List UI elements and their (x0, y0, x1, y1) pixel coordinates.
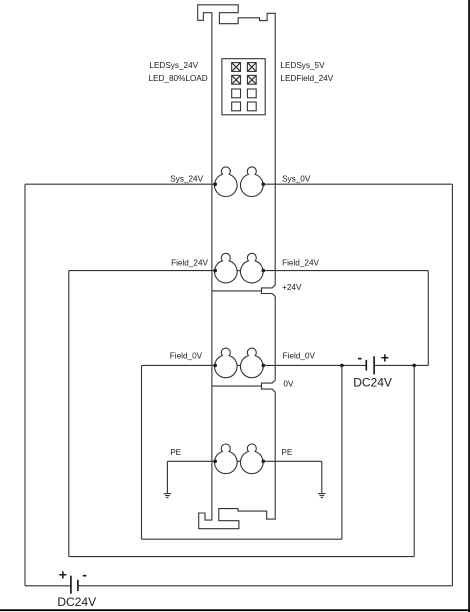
svg-text:Field_0V: Field_0V (283, 352, 316, 361)
svg-text:DC24V: DC24V (57, 595, 96, 609)
contact Sys right bulb (240, 167, 263, 197)
contact Field_0V right bulb (240, 348, 263, 378)
terminal module body outline (198, 5, 276, 529)
junction dot Field_24V left (213, 269, 217, 273)
wire 0V internal tap (212, 385, 261, 387)
junction dot PE left (213, 460, 217, 464)
svg-text:-: - (82, 566, 87, 582)
LED spare indicator (off) (247, 102, 256, 111)
junction dot Field_24V right (262, 269, 266, 273)
LED 80%LOAD indicator (lit) (232, 75, 241, 84)
svg-text:+: + (381, 349, 389, 365)
LED spare indicator (off) (247, 89, 256, 98)
svg-text:Field_24V: Field_24V (282, 258, 319, 267)
LED indicator box (222, 59, 265, 115)
wire Field_24V loop riser (413, 365, 415, 556)
svg-text:PE: PE (281, 448, 292, 457)
wire Field_0V right to battery minus (263, 364, 367, 366)
svg-text:Field_24V: Field_24V (171, 258, 208, 267)
battery G1 minus plate (77, 580, 79, 591)
contact Field_24V right bulb (240, 253, 263, 283)
wire Sys_0V right (263, 183, 453, 185)
wire Field_24V loop bottom (69, 556, 414, 558)
LED Field_24V indicator (lit) (247, 75, 256, 84)
wire Field_0V contact link (237, 364, 241, 366)
wire PE right (263, 460, 322, 462)
wire Sys_24V left drop (24, 184, 26, 586)
wire Field_0V loop riser (341, 365, 343, 539)
svg-text:LEDSys_24V: LEDSys_24V (149, 61, 198, 70)
wire PE right drop (321, 461, 323, 493)
wire Sys loop bottom left (25, 585, 71, 587)
svg-text:LEDField_24V: LEDField_24V (280, 74, 333, 83)
junction dot Field_0V loop tap (340, 364, 344, 368)
ground left earth symbol (164, 493, 172, 495)
wire +24V internal tap (212, 290, 261, 292)
page border right (468, 0, 470, 612)
LED spare indicator (off) (232, 102, 241, 111)
wire Field_24V riser right (427, 271, 429, 366)
svg-text:0V: 0V (283, 379, 294, 388)
svg-text:LEDSys_5V: LEDSys_5V (280, 61, 325, 70)
svg-text:DC24V: DC24V (353, 375, 392, 389)
contact Field_24V left bulb (215, 253, 238, 283)
junction dot PE right (262, 460, 266, 464)
wire Field_24V contact link (237, 270, 241, 272)
junction dot Field_0V left (213, 364, 217, 368)
wire Field_24V left drop (68, 271, 70, 557)
junction dot Field_0V right (262, 364, 266, 368)
svg-text:PE: PE (170, 448, 181, 457)
junction dot Sys_0V (262, 182, 266, 186)
contact PE right bulb (240, 444, 263, 474)
page border bottom (0, 609, 470, 611)
wire Field_0V loop bottom (142, 538, 342, 540)
LED spare indicator (off) (232, 89, 241, 98)
svg-text:+: + (59, 566, 67, 582)
junction dot G2 loop tap (412, 364, 416, 368)
svg-text:-: - (358, 349, 363, 365)
wire Field_0V left drop (141, 365, 143, 539)
wire battery G2 plus to riser (374, 364, 428, 366)
wire PE left drop (166, 461, 168, 493)
wire Sys_0V right drop (451, 184, 453, 586)
svg-text:Field_0V: Field_0V (170, 352, 203, 361)
wire Field_0V left (142, 364, 216, 366)
wire Sys_24V left (25, 183, 215, 185)
contact Field_0V left bulb (215, 348, 238, 378)
LED Sys_5V indicator (lit) (247, 63, 256, 72)
svg-text:Sys_24V: Sys_24V (170, 175, 203, 184)
wire PE left (167, 460, 215, 462)
battery G1 plus plate (70, 576, 72, 594)
battery G2 plus plate (373, 356, 375, 374)
battery G2 minus plate (365, 360, 367, 371)
svg-text:Sys_0V: Sys_0V (282, 175, 311, 184)
wire Field_24V right (263, 270, 429, 272)
svg-text:+24V: +24V (282, 283, 302, 292)
wire PE contact link (237, 460, 241, 462)
ground right earth symbol (318, 493, 326, 495)
wire Sys loop bottom right (78, 585, 453, 587)
svg-text:LED_80%LOAD: LED_80%LOAD (149, 74, 208, 83)
wire Field_24V left (69, 270, 215, 272)
contact Sys left bulb (215, 167, 238, 197)
contact PE left bulb (215, 444, 238, 474)
LED Sys_24V indicator (lit) (232, 63, 241, 72)
junction dot Sys_24V (213, 182, 217, 186)
